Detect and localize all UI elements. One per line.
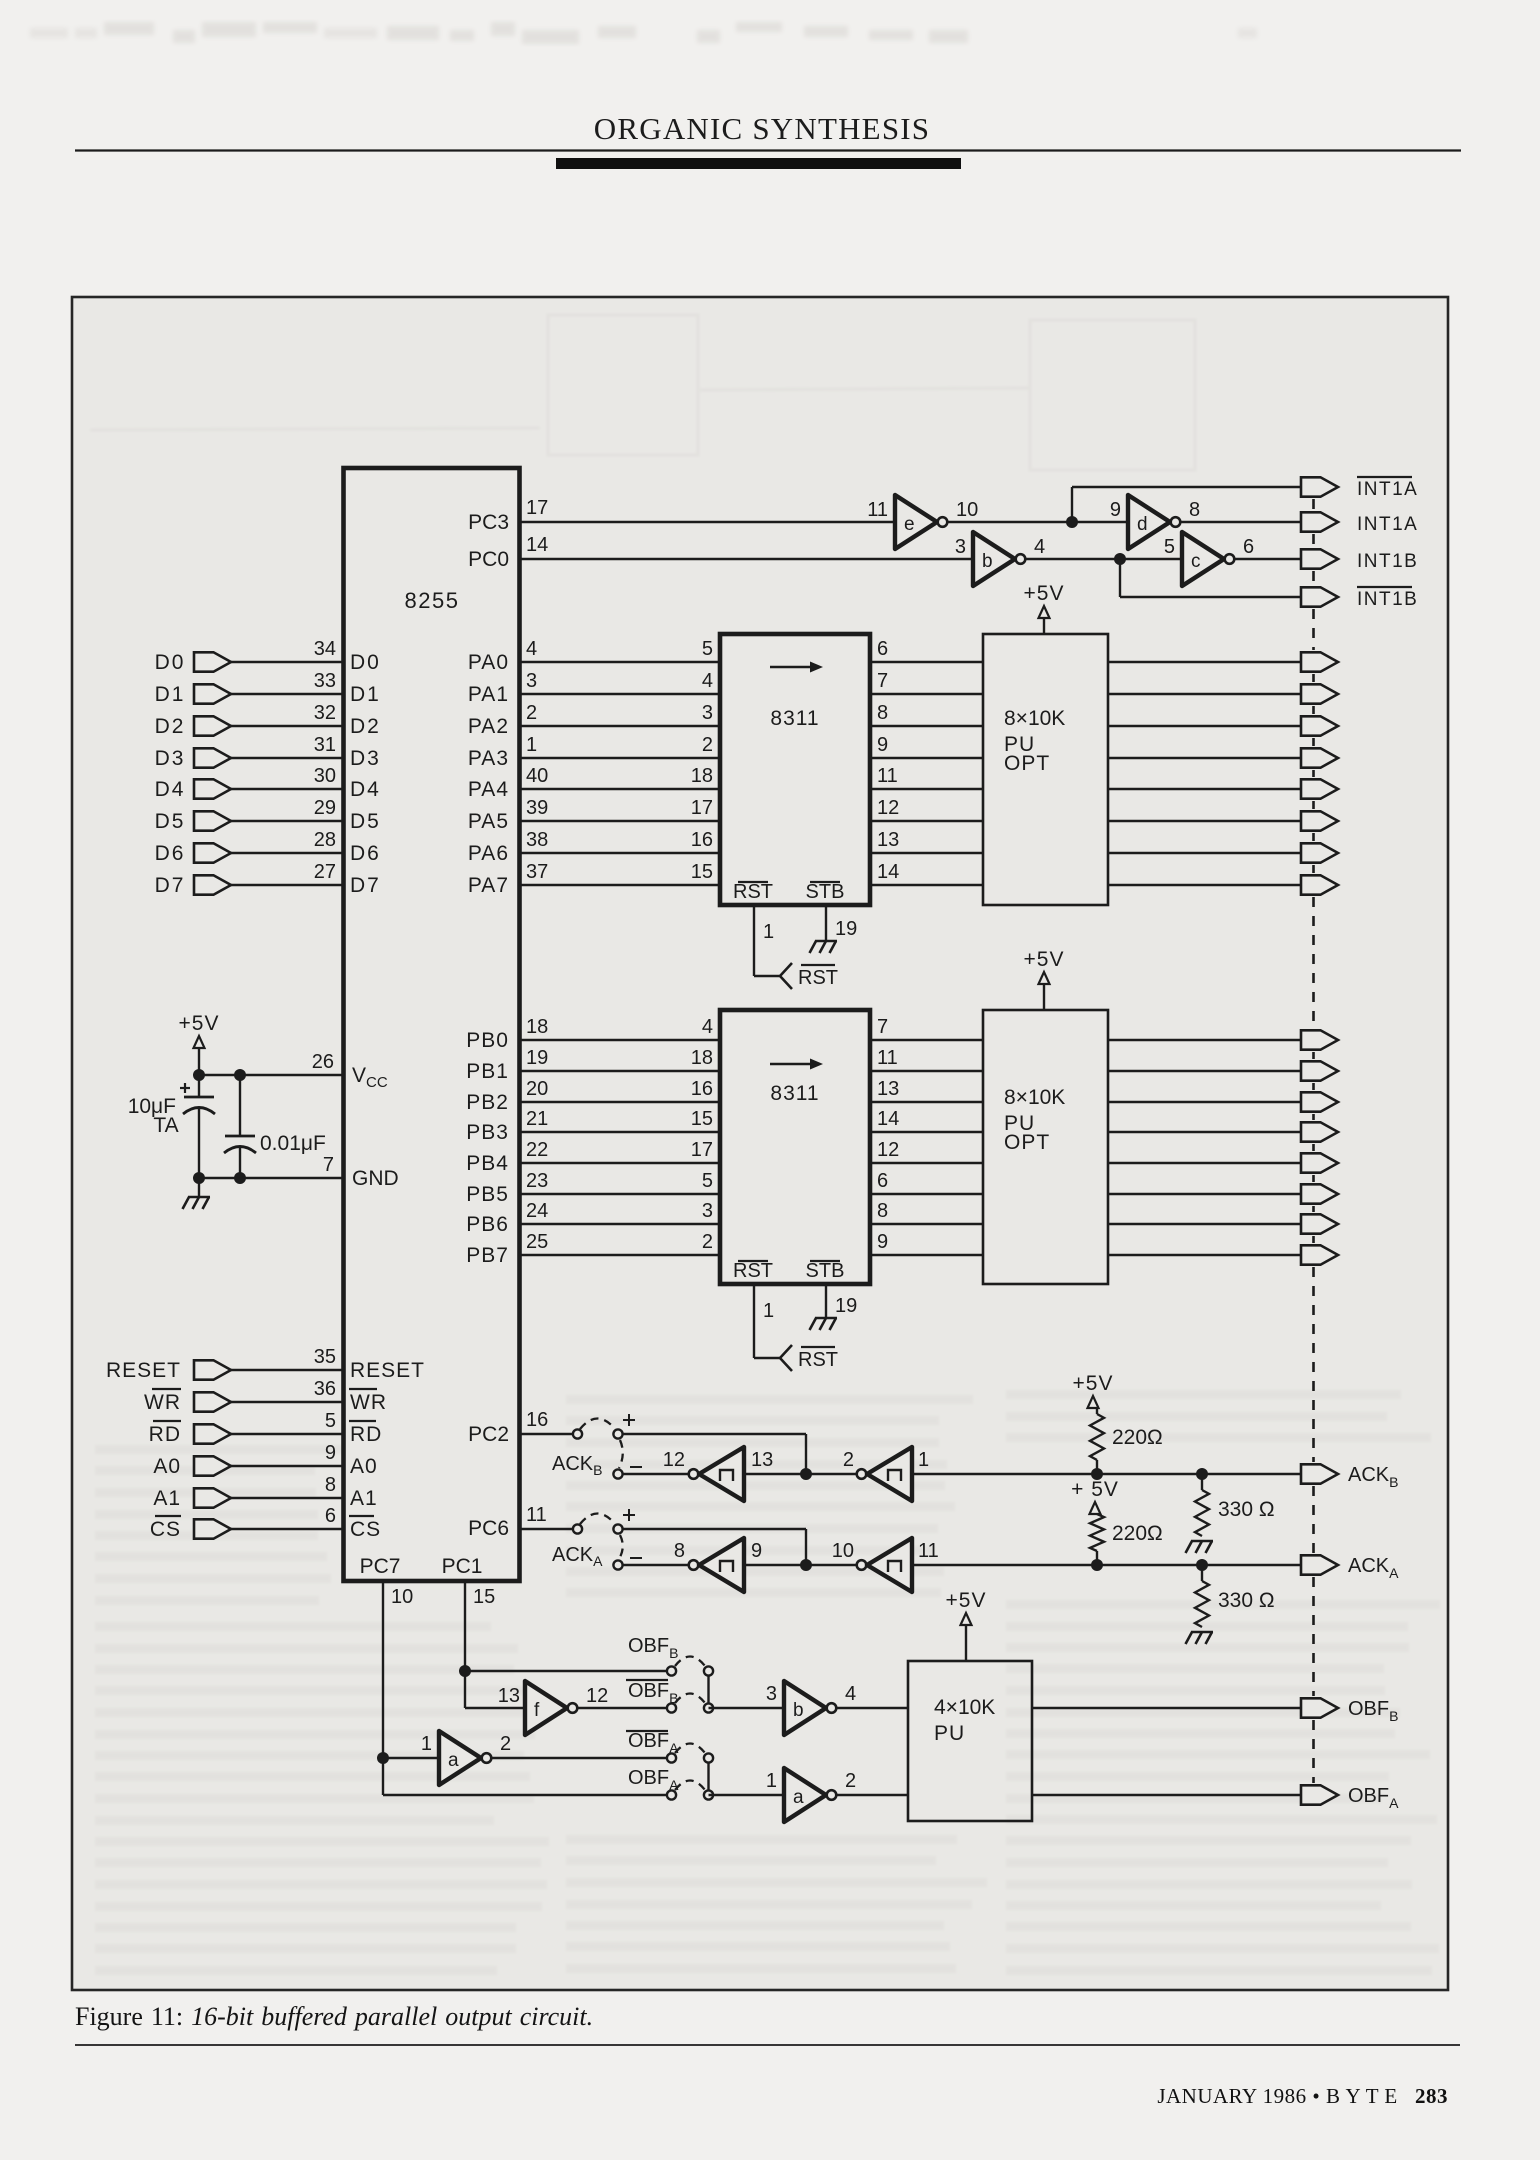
svg-text:11: 11	[877, 765, 898, 787]
connector OBF_A	[1301, 1785, 1338, 1804]
svg-text:34: 34	[314, 638, 336, 660]
wire RD to 8255 pin 5	[231, 1433, 344, 1435]
svg-text:36: 36	[314, 1378, 336, 1400]
svg-text:14: 14	[877, 861, 899, 883]
output connector port-B bit 5	[1301, 1184, 1338, 1203]
wire inverter e output to junction and inverter d	[948, 521, 1129, 523]
svg-text:11: 11	[867, 499, 888, 521]
svg-text:WR: WR	[144, 1391, 181, 1414]
wire junction down to INT1B-bar connector	[1119, 559, 1121, 597]
label OBF_A-bar (jumper row)	[626, 1730, 668, 1732]
svg-text:+5V: +5V	[1024, 582, 1065, 605]
wire pull-up network #2 to output connector row 3	[1108, 1101, 1301, 1103]
svg-text:RST: RST	[798, 967, 838, 989]
svg-text:1: 1	[918, 1449, 929, 1471]
wire inverter b output to junction and inverter c	[1026, 558, 1183, 560]
svg-text:15: 15	[473, 1586, 495, 1608]
pin STB label of 8311 #1	[810, 881, 840, 883]
output connector port-B bit 1	[1301, 1061, 1338, 1080]
ground symbol below 330 ohm (ACKB)	[1186, 1541, 1214, 1553]
svg-text:5: 5	[702, 1170, 713, 1192]
svg-text:A0: A0	[153, 1455, 181, 1478]
jumper contacts OBFB-bar row	[667, 1703, 676, 1712]
output connector port-A bit 2	[1301, 716, 1338, 735]
svg-text:8255: 8255	[405, 588, 460, 613]
wire 8311#2 pin 19 (STB) to ground	[825, 1284, 827, 1318]
svg-text:13: 13	[498, 1685, 520, 1707]
output connector port-A bit 1	[1301, 684, 1338, 703]
svg-text:8: 8	[1189, 499, 1200, 521]
svg-text:RD: RD	[350, 1423, 382, 1446]
wire PC1 to inverter f	[465, 1707, 525, 1709]
svg-text:PC1: PC1	[442, 1555, 483, 1578]
svg-text:30: 30	[314, 765, 336, 787]
wire inverter f output to jumper (OBFB-bar row)	[578, 1707, 669, 1709]
svg-text:PB3: PB3	[466, 1121, 509, 1144]
ground symbol below 330 ohm (ACKA)	[1186, 1632, 1214, 1644]
output connector port-B bit 7	[1301, 1245, 1338, 1264]
svg-text:5: 5	[702, 638, 713, 660]
junction node 0.01uF / GND	[234, 1172, 246, 1184]
svg-text:PC2: PC2	[468, 1423, 509, 1446]
wire RESET to 8255 pin 35	[231, 1369, 344, 1371]
IC 8311 latch (port B) body	[720, 1010, 870, 1284]
output connector port-B bit 3	[1301, 1122, 1338, 1141]
ghost bleed-through paragraphs (decorative)	[95, 1390, 1440, 1975]
svg-text:2: 2	[500, 1733, 511, 1755]
IC 8255 (PPI) body	[344, 468, 520, 1581]
pin RST label of 8311 #2	[738, 1260, 768, 1262]
svg-text:18: 18	[691, 765, 713, 787]
output connector port-B bit 0	[1301, 1030, 1338, 1049]
svg-text:+ 5V: + 5V	[1071, 1478, 1119, 1501]
svg-text:RESET: RESET	[106, 1359, 181, 1382]
junction node 10uF / GND	[193, 1172, 205, 1184]
svg-text:PA3: PA3	[468, 747, 509, 770]
connector OBF_B	[1301, 1698, 1338, 1717]
svg-text:4: 4	[845, 1683, 856, 1705]
svg-text:8×10K: 8×10K	[1004, 1086, 1065, 1109]
wire jumper common to inverter b2	[709, 1707, 785, 1709]
svg-text:D5: D5	[350, 810, 381, 833]
output connector port-B bit 2	[1301, 1092, 1338, 1111]
svg-text:15: 15	[691, 1108, 713, 1130]
jumper contacts OBFB row	[667, 1666, 676, 1675]
svg-text:7: 7	[323, 1154, 334, 1176]
resistor network 8x10K PU OPT (port A)	[983, 634, 1108, 905]
svg-text:PU: PU	[934, 1722, 965, 1745]
wire pull-up network #2 to output connector row 7	[1108, 1223, 1301, 1225]
wire jumper minus contact to buffer TL3	[623, 1564, 689, 1566]
svg-text:PB1: PB1	[466, 1060, 509, 1083]
connector INT1A-bar	[1301, 477, 1338, 496]
svg-text:8: 8	[877, 702, 888, 724]
svg-text:19: 19	[526, 1047, 548, 1069]
wire ACKB line to connector	[912, 1473, 1301, 1475]
wire D5 to 8255 pin 29	[231, 820, 344, 822]
junction node between ACKA buffers	[800, 1559, 812, 1571]
header thick black bar	[556, 158, 961, 169]
svg-text:4: 4	[526, 638, 537, 660]
svg-text:D1: D1	[350, 683, 381, 706]
wire OBFB to connector	[1032, 1707, 1301, 1709]
wire pull-up network #2 to output connector row 2	[1108, 1070, 1301, 1072]
svg-text:1: 1	[763, 921, 774, 943]
junction node 220 ohm / ACKB	[1091, 1468, 1103, 1480]
wire CS to 8255 pin 6	[231, 1528, 344, 1530]
svg-text:4×10K: 4×10K	[934, 1696, 995, 1719]
svg-text:16: 16	[691, 1078, 713, 1100]
wire pull-up network to output connector row 3	[1108, 725, 1301, 727]
svg-text:19: 19	[835, 1295, 857, 1317]
wire pull-up network to output connector row 2	[1108, 693, 1301, 695]
svg-text:18: 18	[526, 1016, 548, 1038]
output connector port-A bit 5	[1301, 811, 1338, 830]
svg-text:TA: TA	[153, 1114, 178, 1137]
svg-text:2: 2	[702, 734, 713, 756]
svg-text:D0: D0	[155, 651, 186, 674]
output connector port-A bit 0	[1301, 652, 1338, 671]
svg-text:3: 3	[766, 1683, 777, 1705]
pin STB label of 8311 #2	[810, 1260, 840, 1262]
svg-text:1: 1	[421, 1733, 432, 1755]
svg-text:38: 38	[526, 829, 548, 851]
svg-text:+5V: +5V	[179, 1012, 220, 1035]
svg-text:330 Ω: 330 Ω	[1218, 1589, 1275, 1612]
svg-text:RST: RST	[733, 881, 773, 903]
wire 8311#2 pin 14 to pull-up network	[870, 1131, 983, 1133]
junction node 330 ohm / ACKB	[1196, 1468, 1208, 1480]
connector ACK_B	[1301, 1464, 1338, 1483]
capacitor C2 0.01uF	[224, 1136, 256, 1153]
wire 8311#2 pin 9 to pull-up network	[870, 1254, 983, 1256]
svg-text:17: 17	[691, 1139, 713, 1161]
svg-text:10: 10	[832, 1540, 854, 1562]
svg-text:PA6: PA6	[468, 842, 509, 865]
wire PC3 to inverter e	[520, 521, 896, 523]
wire 8311 pin 9 to pull-up network	[870, 757, 983, 759]
wire D3 to 8255 pin 31	[231, 757, 344, 759]
svg-text:f: f	[534, 1700, 540, 1721]
wire ACKA line to connector	[912, 1564, 1301, 1566]
svg-text:D7: D7	[350, 874, 381, 897]
wire inverter d output to INT1A connector	[1181, 521, 1302, 523]
wire pull-up network #2 to output connector row 1	[1108, 1039, 1301, 1041]
svg-text:1: 1	[526, 734, 537, 756]
wire pull-up network #2 to output connector row 5	[1108, 1162, 1301, 1164]
wire PC2 + contact to junction between buffers	[623, 1433, 807, 1435]
output connector port-A bit 4	[1301, 779, 1338, 798]
ghost bleed rectangles top area (decorative)	[90, 315, 1195, 470]
svg-text:JANUARY 1986 • B Y T E 283: JANUARY 1986 • B Y T E 283	[1157, 2084, 1448, 2108]
svg-text:PB2: PB2	[466, 1091, 509, 1114]
svg-text:37: 37	[526, 861, 548, 883]
svg-text:STB: STB	[806, 1260, 845, 1282]
connector INT1A	[1301, 512, 1338, 531]
svg-text:2: 2	[526, 702, 537, 724]
wire PC0 to inverter b	[520, 558, 974, 560]
svg-text:PA1: PA1	[468, 683, 509, 706]
IC 8311 latch (port A) body	[720, 634, 870, 905]
svg-text:13: 13	[877, 829, 899, 851]
svg-text:8311: 8311	[770, 707, 819, 730]
svg-text:b: b	[982, 551, 993, 572]
svg-text:9: 9	[877, 734, 888, 756]
svg-text:14: 14	[877, 1108, 899, 1130]
connector INT1B	[1301, 549, 1338, 568]
wire 8311#1 pin 1 (RST) down to RST input stub	[753, 905, 755, 976]
wire PC2 to jumper	[520, 1433, 574, 1435]
wire 8311#2 pin 7 to pull-up network	[870, 1039, 983, 1041]
svg-text:A1: A1	[153, 1487, 181, 1510]
wire 8311#2 pin 8 to pull-up network	[870, 1223, 983, 1225]
output connector port-A bit 7	[1301, 875, 1338, 894]
connector ACK_A	[1301, 1555, 1338, 1574]
svg-text:a: a	[793, 1787, 804, 1808]
wire inverter a1 output to jumper (OBFA-bar row)	[492, 1757, 669, 1759]
svg-text:5: 5	[1164, 536, 1175, 558]
resistor 220 ohm (ACKB)	[1096, 1408, 1098, 1414]
svg-text:17: 17	[526, 497, 548, 519]
svg-text:6: 6	[877, 638, 888, 660]
svg-text:PB6: PB6	[466, 1213, 509, 1236]
svg-text:INT1B: INT1B	[1357, 589, 1418, 610]
svg-text:A1: A1	[350, 1487, 378, 1510]
svg-text:D3: D3	[155, 747, 186, 770]
wire OBFB row to jumper	[465, 1670, 668, 1672]
svg-text:PC6: PC6	[468, 1517, 509, 1540]
svg-text:13: 13	[751, 1449, 773, 1471]
svg-text:8311: 8311	[770, 1082, 819, 1105]
svg-text:16: 16	[526, 1409, 548, 1431]
wire A0 to 8255 pin 9	[231, 1465, 344, 1467]
wire 8311 pin 12 to pull-up network	[870, 820, 983, 822]
svg-text:9: 9	[751, 1540, 762, 1562]
svg-text:D6: D6	[155, 842, 186, 865]
junction node 220 ohm / ACKA	[1091, 1559, 1103, 1571]
svg-text:PC0: PC0	[468, 548, 509, 571]
RST input arrowhead (8311 #1)	[780, 963, 792, 989]
wire D0 to 8255 pin 34	[231, 661, 344, 663]
wire D4 to 8255 pin 30	[231, 788, 344, 790]
junction node on INT1A net	[1066, 516, 1078, 528]
svg-text:11: 11	[526, 1504, 547, 1526]
svg-text:31: 31	[314, 734, 336, 756]
svg-text:3: 3	[955, 536, 966, 558]
junction node between ACKB buffers	[800, 1468, 812, 1480]
wire +5V down to capacitor C1	[198, 1048, 200, 1097]
svg-text:PA7: PA7	[468, 874, 509, 897]
svg-text:18: 18	[691, 1047, 713, 1069]
svg-text:D4: D4	[155, 778, 186, 801]
wire capacitor C1 to GND row	[198, 1107, 200, 1197]
svg-text:9: 9	[325, 1442, 336, 1464]
header thin rule	[75, 149, 1461, 151]
svg-text:9: 9	[877, 1231, 888, 1253]
junction node PC7 / inverter a input	[377, 1752, 389, 1764]
wire pull-up network to output connector row 7	[1108, 852, 1301, 854]
svg-text:2: 2	[845, 1770, 856, 1792]
svg-text:PC7: PC7	[360, 1555, 401, 1578]
svg-text:D2: D2	[155, 715, 186, 738]
svg-text:4: 4	[702, 1016, 713, 1038]
svg-text:3: 3	[702, 702, 713, 724]
pin RST label of 8311 #1	[738, 881, 768, 883]
junction node on INT1B net	[1114, 553, 1126, 565]
jumper common bar (OBF A select)	[707, 1762, 709, 1791]
svg-text:PB0: PB0	[466, 1029, 509, 1052]
svg-text:12: 12	[877, 1139, 899, 1161]
wire A1 to 8255 pin 8	[231, 1497, 344, 1499]
svg-text:15: 15	[691, 861, 713, 883]
wire pull-up network to output connector row 8	[1108, 884, 1301, 886]
wire TL3 input to TL4 output	[744, 1564, 856, 1566]
wire D6 to 8255 pin 28	[231, 852, 344, 854]
wire 8311 pin 7 to pull-up network	[870, 693, 983, 695]
svg-text:0.01μF: 0.01μF	[260, 1132, 326, 1155]
svg-text:26: 26	[312, 1051, 334, 1073]
junction node PC1 / OBFB row	[459, 1665, 471, 1677]
wire 8311 pin 11 to pull-up network	[870, 788, 983, 790]
wire 8311 pin 13 to pull-up network	[870, 852, 983, 854]
svg-text:d: d	[1137, 514, 1148, 535]
caption rule	[75, 2044, 1460, 2046]
svg-text:D0: D0	[350, 651, 381, 674]
wire Vcc row to 8255 pin 26	[199, 1074, 344, 1076]
svg-text:OPT: OPT	[1004, 752, 1050, 775]
resistor 220 ohm (ACKA)	[1090, 1514, 1104, 1551]
svg-text:32: 32	[314, 702, 336, 724]
svg-text:12: 12	[586, 1685, 608, 1707]
svg-text:6: 6	[877, 1170, 888, 1192]
svg-text:PA0: PA0	[468, 651, 509, 674]
svg-text:12: 12	[877, 797, 899, 819]
ground symbol at 8311#2 STB	[810, 1318, 838, 1330]
wire D1 to 8255 pin 33	[231, 693, 344, 695]
svg-text:a: a	[448, 1750, 459, 1771]
svg-text:D2: D2	[350, 715, 381, 738]
svg-text:3: 3	[702, 1200, 713, 1222]
svg-text:INT1A: INT1A	[1357, 514, 1418, 535]
svg-text:+5V: +5V	[946, 1589, 987, 1612]
wire jumper minus contact to buffer TL1	[623, 1473, 689, 1475]
wire PC6 to jumper	[520, 1528, 574, 1530]
wire OBFA row to jumper	[383, 1794, 668, 1796]
svg-text:17: 17	[691, 797, 713, 819]
svg-text:PB4: PB4	[466, 1152, 509, 1175]
RST input arrowhead (8311 #2)	[780, 1345, 792, 1371]
jumper common bar (OBF B select)	[707, 1675, 709, 1704]
direction arrow inside 8311 #1	[770, 666, 812, 668]
resistor 330 ohm (ACKB)	[1201, 1474, 1203, 1490]
wire PC6 + contact to junction between buffers	[623, 1528, 807, 1530]
wire WR to 8255 pin 36	[231, 1401, 344, 1403]
svg-text:14: 14	[526, 534, 548, 556]
wire 8311#2 pin 13 to pull-up network	[870, 1101, 983, 1103]
svg-text:8: 8	[325, 1474, 336, 1496]
svg-text:PA5: PA5	[468, 810, 509, 833]
wire 8311#2 pin 12 to pull-up network	[870, 1162, 983, 1164]
wire inverter b2 to 4x10K PU box	[837, 1707, 909, 1709]
output connector port-B bit 4	[1301, 1153, 1338, 1172]
svg-text:6: 6	[325, 1505, 336, 1527]
svg-text:4: 4	[1034, 536, 1045, 558]
svg-text:8: 8	[674, 1540, 685, 1562]
wire jumper common to inverter a2	[709, 1794, 785, 1796]
wire inverter c output to INT1B connector	[1235, 558, 1302, 560]
wire pull-up network to output connector row 1	[1108, 661, 1301, 663]
svg-text:D5: D5	[155, 810, 186, 833]
page background ghost band (bleed-through, decorative)	[30, 22, 1257, 44]
svg-text:33: 33	[314, 670, 336, 692]
junction node 0.01uF / Vcc	[234, 1069, 246, 1081]
wire 8311 pin 14 to pull-up network	[870, 884, 983, 886]
svg-text:220Ω: 220Ω	[1112, 1522, 1163, 1545]
jumper contact circles at PC2 (+/- select)	[573, 1429, 582, 1438]
svg-text:220Ω: 220Ω	[1112, 1426, 1163, 1449]
svg-text:PB5: PB5	[466, 1183, 509, 1206]
resistor network 4x10K PU	[908, 1661, 1032, 1821]
direction arrow inside 8311 #2	[770, 1063, 812, 1065]
svg-text:INT1A: INT1A	[1357, 479, 1418, 500]
wire GND row to 8255 pin 7	[199, 1177, 344, 1179]
svg-text:RST: RST	[733, 1260, 773, 1282]
svg-text:D1: D1	[155, 683, 186, 706]
svg-text:3: 3	[526, 670, 537, 692]
resistor network 8x10K PU OPT (port B)	[983, 1010, 1108, 1284]
svg-text:12: 12	[663, 1449, 685, 1471]
svg-text:8×10K: 8×10K	[1004, 707, 1065, 730]
svg-text:39: 39	[526, 797, 548, 819]
wire junction up to INT1A-bar connector	[1071, 487, 1073, 522]
wire D7 to 8255 pin 27	[231, 884, 344, 886]
svg-text:10: 10	[391, 1586, 413, 1608]
capacitor C1 10uF TA (polarized)	[183, 1097, 215, 1114]
svg-text:20: 20	[526, 1078, 548, 1100]
jumper dashed arcs at PC2	[580, 1419, 615, 1430]
wire PC1 down from 8255	[464, 1581, 466, 1708]
svg-text:ORGANIC SYNTHESIS: ORGANIC SYNTHESIS	[594, 111, 930, 146]
svg-text:CS: CS	[350, 1518, 381, 1541]
resistor 330 ohm (ACKA)	[1201, 1565, 1203, 1581]
svg-text:24: 24	[526, 1200, 548, 1222]
svg-text:11: 11	[918, 1540, 939, 1562]
wire pull-up network to output connector row 6	[1108, 820, 1301, 822]
label OBF_B-bar (jumper row)	[626, 1679, 668, 1681]
junction node +5V / Vcc	[193, 1069, 205, 1081]
wire 8311 pin 8 to pull-up network	[870, 725, 983, 727]
svg-text:19: 19	[835, 918, 857, 940]
svg-text:8: 8	[877, 1200, 888, 1222]
output connector port-A bit 3	[1301, 748, 1338, 767]
svg-text:Figure 11: 16-bit buffered par: Figure 11: 16-bit buffered parallel outp…	[75, 2002, 593, 2031]
wire D2 to 8255 pin 32	[231, 725, 344, 727]
wire 8311#2 pin 11 to pull-up network	[870, 1070, 983, 1072]
svg-text:GND: GND	[352, 1167, 399, 1190]
svg-text:PA2: PA2	[468, 715, 509, 738]
svg-text:PC3: PC3	[468, 511, 509, 534]
svg-text:A0: A0	[350, 1455, 378, 1478]
schematic border frame	[72, 297, 1448, 1990]
wire pull-up network #2 to output connector row 6	[1108, 1193, 1301, 1195]
jumper dashed arcs at PC6	[580, 1514, 615, 1525]
svg-text:22: 22	[526, 1139, 548, 1161]
svg-text:1: 1	[763, 1300, 774, 1322]
ground symbol below supply caps	[183, 1197, 211, 1209]
svg-text:RD: RD	[149, 1423, 181, 1446]
svg-text:330 Ω: 330 Ω	[1218, 1498, 1275, 1521]
jumper contacts OBFA row	[667, 1790, 676, 1799]
